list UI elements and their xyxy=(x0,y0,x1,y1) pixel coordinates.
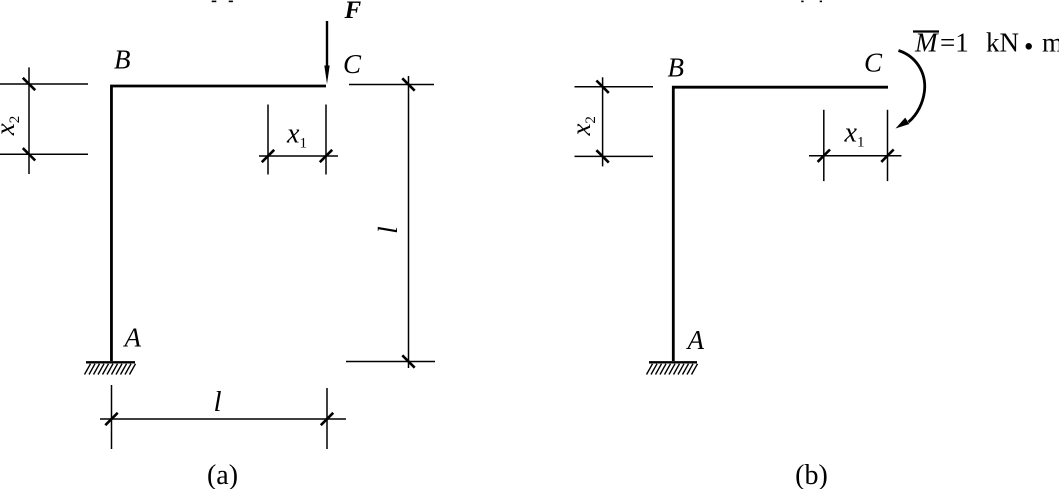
svg-text:(b): (b) xyxy=(795,460,828,489)
svg-text:A: A xyxy=(123,323,142,353)
svg-text:kN: kN xyxy=(986,28,1019,58)
svg-text:l: l xyxy=(213,386,221,418)
svg-text:l: l xyxy=(373,226,403,234)
svg-text:A: A xyxy=(686,325,705,355)
svg-text:•: • xyxy=(1024,32,1033,62)
svg-text:C: C xyxy=(343,49,362,79)
svg-text:(a): (a) xyxy=(207,460,238,489)
svg-text:C: C xyxy=(864,48,883,78)
svg-text:m: m xyxy=(1042,28,1059,58)
svg-text:B: B xyxy=(114,45,131,75)
svg-text:F: F xyxy=(344,0,362,24)
svg-text:B: B xyxy=(668,53,685,83)
svg-text:=1: =1 xyxy=(940,28,969,58)
